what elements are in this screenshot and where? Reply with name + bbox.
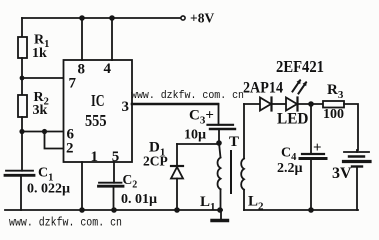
inductor L1 primary winding — [218, 143, 221, 210]
node pin4 top — [109, 15, 115, 21]
wire top bus — [22, 17, 182, 19]
resistor R1 — [18, 37, 27, 58]
svg-text:2EF421: 2EF421 — [276, 57, 324, 76]
svg-text:555: 555 — [85, 111, 107, 130]
LED light arrows — [293, 79, 307, 94]
wire pin6 — [22, 131, 64, 133]
wire pin4 — [111, 18, 113, 60]
svg-text:www. dzkfw. com. cn: www. dzkfw. com. cn — [131, 90, 244, 102]
wire diode row top — [244, 103, 260, 105]
wire D1 branch horizontal — [177, 143, 219, 145]
label D1 — [143, 140, 168, 169]
wire D1 upper lead — [176, 144, 178, 166]
label C4 — [277, 140, 322, 176]
wire pin8 — [81, 18, 83, 60]
node pin2 branch — [42, 129, 47, 134]
node L1 ground — [217, 207, 223, 213]
svg-text:7: 7 — [69, 76, 77, 92]
label C1 — [27, 166, 70, 197]
svg-text:+8V: +8V — [190, 11, 214, 26]
wire C1 to ground bus — [20, 175, 22, 210]
svg-text:+: + — [313, 140, 322, 156]
wire C3 to node — [218, 129, 220, 143]
svg-text:C2: C2 — [123, 172, 138, 191]
node C4 bottom — [308, 207, 314, 213]
node pin8 top — [79, 15, 85, 21]
wire R3 to right rail — [344, 104, 358, 150]
transformer T core — [230, 151, 232, 193]
svg-text:2.2µ: 2.2µ — [277, 161, 303, 176]
node LED/R3/C4 junction — [308, 101, 314, 107]
svg-text:3V: 3V — [332, 165, 352, 182]
capacitor C4 — [300, 154, 326, 159]
diode D1 — [171, 166, 183, 179]
label C3 — [184, 108, 214, 143]
svg-text:0. 01µ: 0. 01µ — [121, 192, 157, 207]
svg-text:3k: 3k — [33, 103, 48, 118]
wire between diodes — [272, 103, 286, 105]
label R3 — [323, 82, 344, 122]
power terminal +8V — [181, 16, 185, 20]
svg-text:100: 100 — [323, 107, 344, 122]
svg-text:2AP14: 2AP14 — [243, 80, 283, 97]
svg-text:3: 3 — [122, 99, 130, 115]
node D1 ground — [174, 207, 180, 213]
wire C2 to bus — [113, 186, 115, 210]
svg-text:LED: LED — [277, 111, 309, 128]
label C2 — [121, 172, 157, 207]
node C2 ground — [111, 207, 117, 213]
node C3/D1/L1 junction — [216, 140, 222, 146]
svg-text:IC: IC — [91, 91, 105, 110]
wire pin3 output — [132, 103, 218, 106]
wire battery top lead — [356, 150, 358, 152]
wire R1 to junction — [21, 58, 23, 95]
svg-text:4: 4 — [104, 61, 112, 77]
svg-text:0. 022µ: 0. 022µ — [27, 181, 70, 196]
svg-text:T: T — [229, 134, 239, 150]
svg-text:8: 8 — [78, 62, 86, 78]
resistor R2 — [18, 95, 27, 117]
capacitor C1 — [5, 171, 34, 176]
node R1/R2 junction — [20, 76, 25, 81]
svg-text:1k: 1k — [32, 46, 47, 61]
svg-text:2CP: 2CP — [143, 154, 168, 169]
resistor R3 — [323, 101, 344, 108]
label R1 — [32, 33, 49, 62]
wire LED to node — [298, 103, 323, 105]
wire left rail top — [21, 18, 23, 37]
inductor L2 secondary winding — [241, 104, 244, 210]
LED 2EF421 — [286, 98, 298, 111]
wire D1 lower lead — [176, 179, 178, 211]
svg-text:5: 5 — [112, 149, 120, 165]
wire bottom ground bus — [5, 209, 222, 211]
svg-text:C3+: C3+ — [189, 108, 214, 127]
wire pin2 — [45, 132, 64, 149]
svg-text:R3: R3 — [327, 82, 344, 101]
capacitor C3 — [208, 125, 236, 129]
IC 555 timer body — [64, 60, 133, 162]
diode VD 2AP14 — [260, 98, 272, 111]
wire pin1 — [81, 162, 83, 210]
svg-text:10µ: 10µ — [184, 128, 206, 143]
wire battery bottom to bus — [356, 167, 358, 211]
wire pin7 — [22, 77, 64, 79]
wire secondary bottom bus — [244, 209, 358, 211]
svg-text:www. dzkfw. com. cn: www. dzkfw. com. cn — [9, 216, 122, 230]
wire C4 top lead — [310, 104, 312, 154]
label R2 — [33, 90, 49, 118]
wire pin3 to C3 — [218, 104, 220, 125]
ground — [212, 210, 228, 221]
svg-text:1: 1 — [91, 149, 99, 165]
node pin1 ground — [79, 207, 85, 213]
svg-text:2: 2 — [66, 141, 74, 157]
node pin6 branch junction — [19, 129, 24, 134]
capacitor C2 — [99, 183, 124, 187]
wire C4 bottom lead — [310, 159, 312, 211]
wire pin5 — [113, 162, 115, 183]
battery BT 3V — [344, 152, 371, 167]
wire R2 to C1 — [21, 117, 23, 171]
